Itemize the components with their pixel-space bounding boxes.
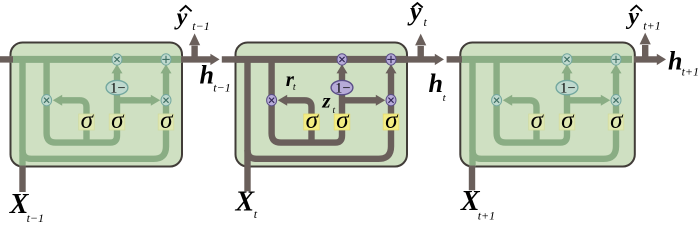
svg-text:t+1: t+1: [643, 18, 660, 32]
svg-text:h: h: [200, 61, 214, 90]
arrowhead: h t+1: [657, 54, 666, 65]
cell t-1 (left, faded): [11, 43, 183, 167]
wire: h t-1 connector: [181, 56, 211, 62]
arrowhead: y t-1: [189, 33, 200, 45]
wire: X t+1 input stub: [469, 166, 475, 191]
svg-text:t: t: [333, 106, 336, 116]
svg-text:t+1: t+1: [682, 65, 699, 79]
wire: y t+1 branch: [642, 45, 648, 59]
arrowhead: y t: [415, 34, 426, 46]
wire: y t branch: [418, 46, 424, 59]
wire: X t-1 input stub: [19, 166, 25, 193]
wire: y t-1 branch: [191, 46, 197, 60]
arrowhead: h t-1: [210, 54, 219, 65]
cell body: [460, 43, 635, 167]
svg-text:X: X: [235, 186, 256, 217]
wire: X t input stub: [244, 166, 250, 192]
cell body: [236, 43, 408, 167]
svg-text:t−1: t−1: [213, 80, 230, 94]
svg-text:z: z: [321, 89, 331, 113]
svg-text:h: h: [668, 46, 682, 75]
wire: stub into right cell: [447, 56, 462, 62]
svg-text:t: t: [293, 82, 296, 93]
wire: h t+1 connector: [634, 56, 657, 62]
svg-text:t−1: t−1: [192, 19, 209, 33]
dark connectors: [0, 45, 657, 192]
svg-text:y: y: [174, 5, 188, 31]
svg-text:h: h: [429, 69, 443, 98]
svg-text:t−1: t−1: [27, 211, 44, 225]
wire: stub into middle cell: [222, 56, 238, 62]
svg-text:t+1: t+1: [478, 208, 495, 222]
wire: h t connector: [406, 56, 435, 62]
arrowhead: y t+1: [640, 33, 651, 45]
arrowhead: h t: [435, 54, 444, 65]
cell t+1 (right, faded): [460, 43, 635, 167]
cell body: [11, 43, 183, 167]
cell t (middle, active): [236, 43, 408, 167]
wire: left input stub: [0, 56, 13, 62]
